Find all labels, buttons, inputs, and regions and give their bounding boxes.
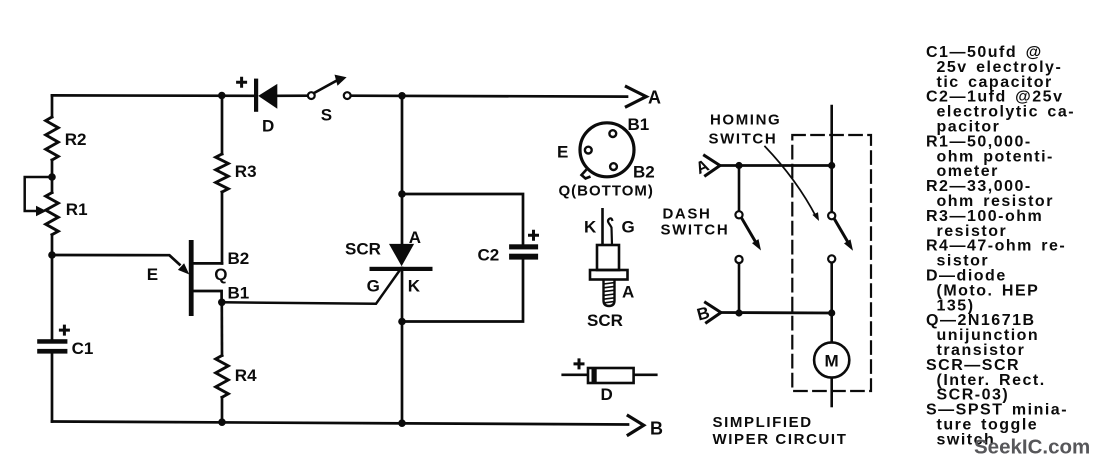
svg-text:A: A — [409, 228, 421, 247]
svg-text:R3: R3 — [235, 162, 257, 181]
svg-text:SCR: SCR — [587, 311, 623, 330]
svg-text:E: E — [557, 143, 568, 162]
svg-text:M: M — [825, 352, 839, 371]
svg-text:SWITCH: SWITCH — [661, 222, 730, 239]
svg-text:HOMING: HOMING — [710, 112, 781, 129]
svg-text:K: K — [408, 277, 421, 296]
svg-text:R2: R2 — [65, 130, 87, 149]
svg-text:C2: C2 — [478, 246, 500, 265]
svg-text:SIMPLIFIED: SIMPLIFIED — [713, 414, 813, 431]
svg-text:G: G — [367, 277, 380, 296]
svg-text:SeekIC.com: SeekIC.com — [974, 436, 1090, 459]
svg-text:R1: R1 — [66, 200, 88, 219]
svg-text:SCR: SCR — [345, 240, 381, 259]
svg-text:B1: B1 — [628, 115, 650, 134]
svg-text:B1: B1 — [228, 284, 250, 303]
svg-text:SWITCH: SWITCH — [709, 131, 778, 148]
svg-text:A: A — [648, 88, 661, 108]
svg-text:B2: B2 — [633, 163, 655, 182]
svg-text:D: D — [601, 385, 613, 404]
svg-text:DASH: DASH — [663, 206, 712, 223]
svg-text:A: A — [622, 283, 634, 302]
svg-text:G: G — [622, 218, 635, 237]
svg-text:D: D — [262, 117, 274, 136]
svg-text:E: E — [147, 265, 158, 284]
svg-text:Q: Q — [214, 265, 227, 284]
svg-text:WIPER CIRCUIT: WIPER CIRCUIT — [713, 431, 848, 448]
svg-text:R4: R4 — [235, 366, 257, 385]
svg-text:Q(BOTTOM): Q(BOTTOM) — [559, 183, 654, 200]
svg-text:K: K — [584, 218, 597, 237]
svg-text:S: S — [321, 106, 332, 125]
svg-text:B2: B2 — [228, 249, 250, 268]
svg-text:C1: C1 — [72, 339, 94, 358]
svg-text:B: B — [650, 419, 663, 439]
